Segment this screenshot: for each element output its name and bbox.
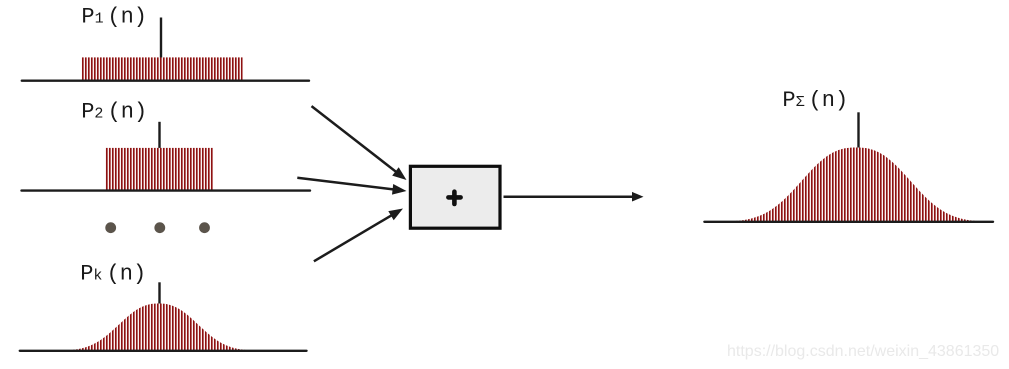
axis Pk	[20, 350, 307, 352]
axis P2	[22, 189, 311, 191]
spike Psigma	[857, 112, 859, 149]
output arrow	[504, 195, 637, 198]
svg-text:P2(n): P2(n)	[81, 100, 147, 125]
gaussian distribution Psigma	[734, 148, 978, 223]
axis P1	[22, 79, 309, 81]
summation box	[410, 166, 500, 228]
svg-text:PΣ(n): PΣ(n)	[782, 88, 848, 113]
axis Psigma	[704, 221, 993, 223]
uniform distribution P1	[82, 57, 243, 80]
arrow from Pk to summation box	[314, 213, 396, 261]
svg-text:https://blog.csdn.net/weixin_4: https://blog.csdn.net/weixin_43861350	[727, 343, 999, 360]
ellipsis dots	[105, 222, 210, 233]
spike P2	[158, 122, 160, 150]
uniform distribution P2	[106, 148, 213, 191]
spike P1	[160, 18, 162, 59]
arrow from P1 to summation box	[312, 106, 400, 175]
arrow from P2 to summation box	[297, 178, 398, 190]
svg-text:P1(n): P1(n)	[81, 5, 147, 30]
svg-text:Pk(n): Pk(n)	[80, 262, 146, 287]
plus sign	[448, 192, 460, 204]
gaussian distribution Pk	[66, 304, 252, 352]
spike Pk	[158, 282, 160, 304]
